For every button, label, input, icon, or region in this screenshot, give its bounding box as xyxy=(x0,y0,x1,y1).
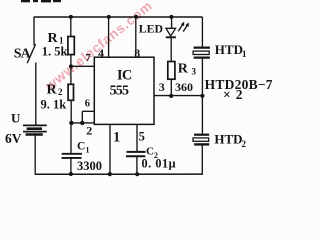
svg-text:3: 3 xyxy=(159,80,165,94)
svg-text:555: 555 xyxy=(110,84,129,99)
svg-text:2: 2 xyxy=(86,124,92,138)
svg-text:0. 01μ: 0. 01μ xyxy=(142,156,177,170)
svg-text:6V: 6V xyxy=(5,131,22,146)
svg-text:3300: 3300 xyxy=(77,159,102,173)
svg-text:LED: LED xyxy=(139,21,163,35)
svg-text:8: 8 xyxy=(134,47,140,60)
svg-text:360: 360 xyxy=(175,80,193,94)
svg-text:5: 5 xyxy=(139,129,145,143)
svg-text:U: U xyxy=(11,111,21,126)
svg-text:IC: IC xyxy=(117,68,132,84)
svg-text:3: 3 xyxy=(192,67,197,77)
svg-text:2: 2 xyxy=(242,139,247,149)
svg-text:1: 1 xyxy=(242,49,247,59)
svg-text:1: 1 xyxy=(113,129,120,145)
svg-text:R: R xyxy=(47,83,58,98)
svg-text:1. 5k: 1. 5k xyxy=(42,45,68,59)
svg-text:9. 1k: 9. 1k xyxy=(41,97,67,111)
svg-text:4: 4 xyxy=(98,46,104,60)
svg-text:×2: ×2 xyxy=(223,87,247,102)
svg-text:R: R xyxy=(178,61,189,76)
svg-text:2: 2 xyxy=(58,87,63,97)
svg-text:HTD: HTD xyxy=(214,132,242,147)
svg-text:1: 1 xyxy=(86,146,90,155)
svg-text:7: 7 xyxy=(86,53,91,64)
svg-text:6: 6 xyxy=(85,98,90,109)
svg-text:HTD: HTD xyxy=(215,42,243,57)
svg-text:SA: SA xyxy=(14,46,31,61)
svg-text:C: C xyxy=(77,141,85,153)
